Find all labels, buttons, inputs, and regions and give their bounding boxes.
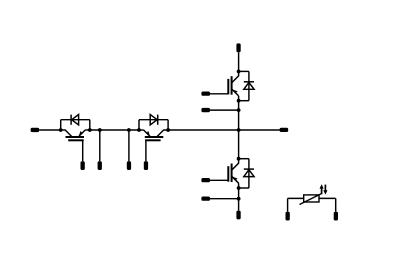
- terminal Q2 gate: [144, 161, 148, 170]
- node aux emitter Q1: [98, 128, 102, 132]
- terminal thermistor left: [286, 212, 290, 221]
- wire Q3 emitter to phase node: [238, 101, 240, 130]
- terminal aux emitter Q1: [98, 161, 102, 170]
- transistor Q3 (IGBT): [228, 71, 238, 100]
- thermistor RT1 diagonal stroke: [300, 194, 322, 205]
- node Q3 aux emitter: [237, 108, 241, 112]
- wire DC+ to Q3 collector: [238, 52, 240, 71]
- terminal phase output: [280, 128, 289, 132]
- terminal Q4 aux emitter: [201, 197, 210, 201]
- transistor Q4 (IGBT): [228, 159, 238, 188]
- wire Q2 gate lead: [145, 140, 147, 161]
- wire Q4 emitter to DC- terminal: [238, 188, 240, 211]
- diode D2 (antiparallel): [139, 115, 168, 131]
- wire Q4 gate lead: [210, 179, 228, 181]
- wire thermistor top: [288, 197, 336, 199]
- wire Q1 emitter to Q2 emitter: [90, 129, 139, 131]
- wire thermistor right leg: [335, 198, 337, 211]
- terminal Q3 aux emitter: [201, 108, 210, 112]
- thermistor RT1 body: [304, 195, 319, 202]
- diode D1 (antiparallel): [61, 115, 90, 131]
- terminal aux emitter Q2: [127, 161, 131, 170]
- node aux emitter Q2: [127, 128, 131, 132]
- node Q3 emitter: [237, 99, 241, 103]
- wire thermistor left leg: [287, 198, 289, 211]
- transistor Q1 (IGBT): [61, 130, 90, 140]
- wire Q2 collector to phase node: [168, 129, 239, 131]
- node Q1 emitter: [88, 128, 92, 132]
- terminal DC- (bottom): [236, 211, 240, 220]
- wire Q3 gate lead: [210, 93, 228, 95]
- node Q1 collector: [59, 128, 63, 132]
- wire Q4 aux emitter lead: [210, 198, 239, 200]
- transistor Q2 (IGBT): [139, 130, 168, 140]
- terminal Q1 gate: [81, 161, 85, 170]
- diode D3 (freewheel, anode bottom cathode top): [239, 71, 255, 100]
- wire phase to output terminal: [239, 129, 280, 131]
- node Q4 emitter: [237, 186, 241, 190]
- node Q2 collector: [166, 128, 170, 132]
- node Q4 collector: [237, 157, 241, 161]
- wire Q1 gate lead: [82, 140, 84, 161]
- wire phase to Q4 collector: [238, 130, 240, 159]
- terminal DC+ (top): [236, 43, 240, 52]
- node Q4 aux emitter: [237, 197, 241, 201]
- terminal Q4 gate: [201, 178, 210, 182]
- node phase output: [237, 128, 241, 132]
- diode D4 (freewheel, anode bottom cathode top): [239, 159, 255, 188]
- terminal Q3 gate: [201, 92, 210, 96]
- thermistor arrows (up/down): [320, 184, 328, 194]
- wire aux emitter Q2 down: [128, 130, 130, 161]
- terminal thermistor right: [334, 212, 338, 221]
- wire Q3 aux emitter lead: [210, 109, 239, 111]
- wire input to Q1 collector: [39, 129, 61, 131]
- node Q2 emitter: [137, 128, 141, 132]
- wire aux emitter Q1 down: [99, 130, 101, 161]
- node Q3 collector: [237, 70, 241, 74]
- terminal X1 (input): [31, 128, 40, 132]
